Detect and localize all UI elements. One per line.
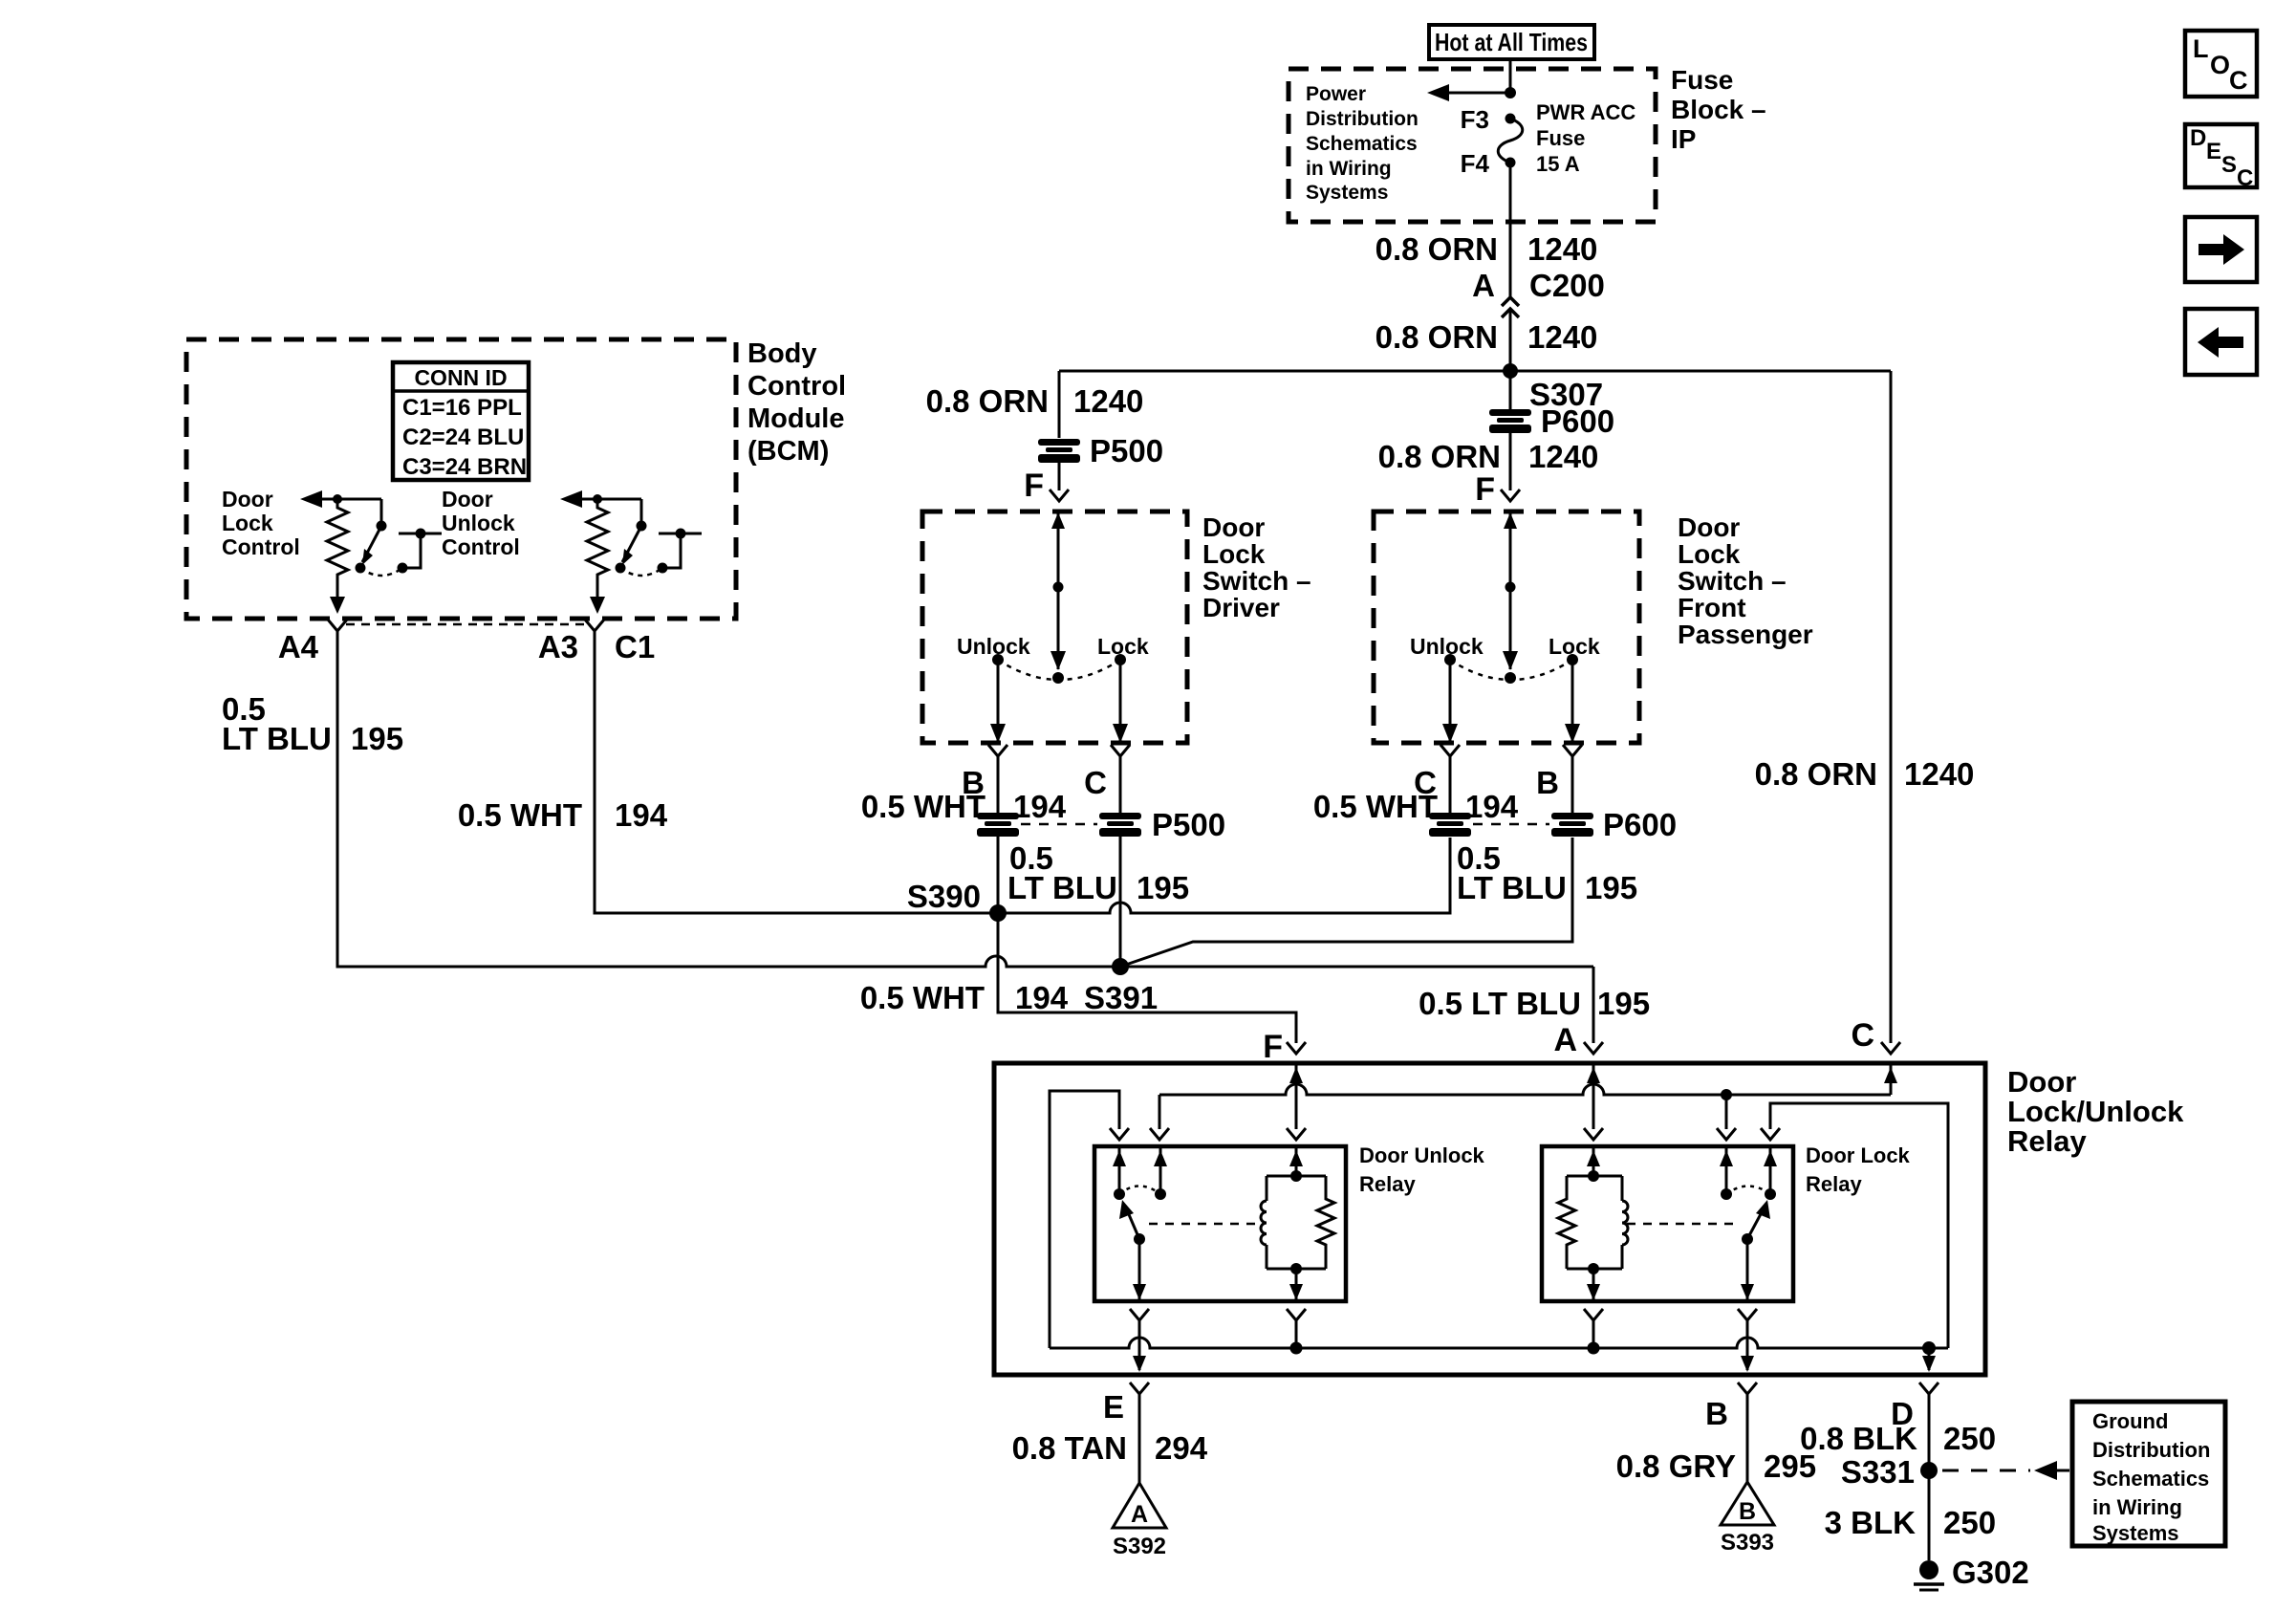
pin F relay box: [1263, 1029, 1306, 1065]
svg-text:Relay: Relay: [2007, 1124, 2087, 1158]
lock relay: coil-blade dashed link: [1627, 1223, 1738, 1226]
splice S390: [907, 879, 1007, 922]
svg-text:Control: Control: [747, 371, 846, 402]
wire: passenger B to P600: [1571, 756, 1574, 814]
wire: lock coil out to ground line: [1584, 1309, 1603, 1355]
pin D relay box bottom: [1891, 1382, 1939, 1431]
wire: driver C below P500 to S391: [1119, 837, 1122, 967]
node F3: [1461, 105, 1516, 134]
svg-text:C2=24 BLU: C2=24 BLU: [402, 425, 524, 450]
svg-text:S: S: [2221, 152, 2237, 178]
svg-text:Unlock: Unlock: [1410, 634, 1484, 659]
svg-text:195: 195: [1137, 870, 1189, 905]
svg-text:Driver: Driver: [1202, 593, 1280, 622]
lock relay: pin2 contact: [1764, 1148, 1777, 1200]
unlock relay: switch blade: [1119, 1200, 1145, 1245]
svg-text:1240: 1240: [1527, 231, 1597, 267]
svg-text:C3=24 BRN: C3=24 BRN: [402, 454, 527, 480]
pin C passenger: [1414, 745, 1460, 800]
svg-text:3 BLK: 3 BLK: [1825, 1505, 1917, 1540]
svg-text:F4: F4: [1461, 149, 1490, 178]
svg-text:0.8 ORN: 0.8 ORN: [1375, 319, 1498, 355]
connector P500 inline on F wire: [1038, 433, 1163, 468]
splice S307: [1503, 363, 1603, 412]
driver: door unlock control output arrow: [560, 490, 641, 508]
wire label: 0.5 LT BLU 195: [222, 691, 403, 756]
unlock relay: blade-coil dashed link: [1149, 1223, 1264, 1226]
connector P600 inline below S307: [1489, 403, 1614, 439]
svg-text:1240: 1240: [1527, 319, 1597, 355]
pin A relay box: [1553, 1022, 1603, 1058]
wire: P500 to switch pin F: [1058, 463, 1061, 490]
svg-text:(BCM): (BCM): [747, 436, 829, 467]
switch box: Door Lock Switch - Front Passenger (dashed): [1374, 512, 1639, 743]
svg-text:Schematics: Schematics: [1306, 133, 1418, 155]
wire: P600 to passenger pin F: [1509, 433, 1512, 490]
svg-text:P500: P500: [1152, 807, 1225, 842]
wire label: 0.8 ORN 1240 right side: [1755, 756, 1975, 792]
wire: internal ground line (hops over E and B): [1050, 1338, 1948, 1348]
svg-text:15 A: 15 A: [1536, 152, 1580, 176]
svg-text:G302: G302: [1952, 1555, 2029, 1590]
switch box: Door Lock Switch - Driver (dashed): [922, 512, 1187, 743]
note box: Ground Distribution Schematics in Wiring Systems: [2072, 1402, 2225, 1546]
svg-text:Block –: Block –: [1671, 95, 1766, 124]
svg-text:C1: C1: [615, 629, 655, 664]
label: Door Unlock Relay: [1359, 1143, 1485, 1196]
pin C driver: [1084, 745, 1130, 800]
svg-text:Body: Body: [747, 338, 817, 369]
wire: passenger C to P600 (0.5 WHT 194): [1313, 756, 1519, 824]
svg-text:Door: Door: [2007, 1065, 2076, 1099]
svg-text:L: L: [2193, 34, 2209, 63]
svg-text:Door Unlock: Door Unlock: [1359, 1143, 1485, 1167]
wire: fuse to S307 (0.8 ORN 1240): [1509, 163, 1512, 297]
icon box LOC: [2185, 31, 2257, 97]
connector dashed line at BCM pins: [346, 623, 586, 626]
wire: C feed drop to unlock relay pin 2: [1150, 1095, 1169, 1140]
wire: main bus from P500 drop to right drop: [1059, 370, 1891, 373]
svg-text:Door Lock: Door Lock: [1806, 1143, 1911, 1167]
lock relay: pin1 contact: [1720, 1148, 1733, 1200]
svg-text:S331: S331: [1841, 1454, 1915, 1490]
svg-text:PWR ACC: PWR ACC: [1536, 100, 1635, 124]
wire: 0.8 ORN 1240 right drop to relay C: [1890, 371, 1893, 1043]
relay module box: Door Lock/Unlock Relay: [994, 1063, 1985, 1375]
svg-text:0.8 TAN: 0.8 TAN: [1012, 1430, 1127, 1466]
icon box DESC: [2185, 124, 2257, 191]
node: D branch on ground line: [1922, 1341, 1936, 1372]
wire: passenger switch F drop from S307: [1509, 371, 1512, 410]
svg-text:P600: P600: [1603, 807, 1677, 842]
svg-text:0.8 ORN: 0.8 ORN: [1375, 231, 1498, 267]
lock relay: coil assembly: [1558, 1148, 1628, 1300]
svg-text:195: 195: [1585, 870, 1637, 905]
driver: unlock control switch: [616, 499, 703, 576]
svg-text:A4: A4: [278, 629, 319, 664]
svg-text:P600: P600: [1541, 403, 1614, 439]
splice S331: [1841, 1454, 1938, 1490]
svg-text:0.8 ORN: 0.8 ORN: [926, 383, 1049, 419]
pin F passenger: [1475, 471, 1520, 508]
svg-text:Unlock: Unlock: [442, 511, 515, 535]
fuse block dashed box: [1289, 69, 1656, 222]
wire: relay A feed down: [1592, 967, 1595, 1043]
wire: F inside relay box: [1287, 1065, 1306, 1140]
passenger switch: wiper dashed arc: [1450, 660, 1572, 680]
wire: ground link line to lock relay pin 2 and D: [1761, 1103, 1948, 1348]
svg-text:C200: C200: [1529, 268, 1605, 303]
wire: ground loop left vertical to unlock pin 1: [1050, 1091, 1129, 1348]
splice S391: [1084, 958, 1158, 1015]
svg-text:Control: Control: [222, 534, 300, 559]
wire: E to S392 (0.8 TAN 294): [1012, 1394, 1208, 1483]
svg-text:S391: S391: [1084, 980, 1158, 1015]
wire label: 0.8 ORN 1240: [1375, 231, 1598, 267]
svg-text:1240: 1240: [1904, 756, 1974, 792]
wire label: 0.5 LT BLU 195 at relay A feed: [1419, 986, 1650, 1021]
pin B driver: [962, 745, 1007, 800]
svg-text:S390: S390: [907, 879, 981, 914]
connector C200 pin A: [1472, 268, 1605, 317]
svg-text:0.8 GRY: 0.8 GRY: [1616, 1448, 1736, 1484]
dashed ref arrow to ground distribution: [1942, 1461, 2069, 1480]
wire label: 0.5 LT BLU 195 driver C: [1007, 840, 1189, 905]
svg-text:Front: Front: [1678, 593, 1746, 622]
icon box arrow right: [2185, 217, 2257, 282]
svg-text:LT BLU: LT BLU: [1457, 870, 1567, 905]
svg-text:CONN ID: CONN ID: [414, 365, 507, 390]
svg-text:0.8 BLK: 0.8 BLK: [1800, 1421, 1917, 1456]
wire label: 0.5 LT BLU 195 passenger B: [1457, 840, 1637, 905]
wire label: 0.8 ORN 1240: [1378, 439, 1599, 474]
svg-text:194: 194: [1013, 789, 1067, 824]
label: Body Control Module (BCM): [747, 338, 846, 467]
svg-text:LT BLU: LT BLU: [222, 721, 332, 756]
passenger switch: wiper arm: [1503, 512, 1518, 684]
svg-text:Passenger: Passenger: [1678, 620, 1813, 649]
svg-text:S393: S393: [1721, 1530, 1774, 1556]
svg-text:Door: Door: [222, 487, 273, 512]
svg-text:S392: S392: [1113, 1534, 1166, 1559]
svg-text:A: A: [1472, 268, 1495, 303]
svg-text:Systems: Systems: [1306, 182, 1388, 204]
svg-text:0.8 ORN: 0.8 ORN: [1378, 439, 1501, 474]
svg-text:LT BLU: LT BLU: [1007, 870, 1117, 905]
pin C relay box: [1851, 1017, 1900, 1054]
svg-text:Door: Door: [1678, 512, 1740, 542]
svg-text:Hot at All Times: Hot at All Times: [1435, 28, 1588, 56]
svg-text:Module: Module: [747, 403, 845, 434]
svg-text:Lock: Lock: [1202, 539, 1266, 569]
node F4: [1461, 149, 1516, 178]
pin F driver: [1024, 468, 1069, 504]
wire: S390 net horizontal (hop over driver C): [595, 631, 1450, 913]
svg-text:A3: A3: [538, 629, 578, 664]
driver: unlock control resistor: [587, 499, 608, 597]
fuse PWR ACC 15A: [1498, 119, 1523, 163]
svg-text:Fuse: Fuse: [1536, 126, 1585, 150]
svg-text:O: O: [2210, 51, 2230, 79]
unlock relay: pin2 contact: [1154, 1148, 1167, 1200]
unlock relay: contact dashed arc: [1119, 1186, 1160, 1195]
svg-text:in Wiring: in Wiring: [2092, 1495, 2182, 1519]
svg-text:E: E: [2206, 139, 2221, 164]
relay box: Door Unlock Relay: [1094, 1146, 1346, 1301]
svg-text:Switch –: Switch –: [1678, 566, 1787, 596]
svg-text:C: C: [1851, 1017, 1874, 1054]
label: Door Unlock Control: [442, 487, 520, 559]
module box: Body Control Module (BCM) dashed: [186, 339, 736, 619]
svg-text:Distribution: Distribution: [1306, 108, 1419, 130]
driver switch: wiper arm: [1051, 512, 1066, 684]
unlock relay: pin1 contact: [1113, 1148, 1126, 1200]
svg-text:250: 250: [1943, 1421, 1996, 1456]
label: Door Lock/Unlock Relay: [2007, 1065, 2184, 1158]
driver switch: wiper dashed arc: [998, 660, 1120, 680]
svg-text:C: C: [1084, 765, 1107, 800]
svg-text:Systems: Systems: [2092, 1521, 2179, 1545]
svg-text:Lock/Unlock: Lock/Unlock: [2007, 1095, 2184, 1128]
svg-text:0.8 ORN: 0.8 ORN: [1755, 756, 1877, 792]
svg-text:Unlock: Unlock: [957, 634, 1030, 659]
svg-text:195: 195: [1597, 986, 1650, 1021]
wire: C feed line (hops over F and A): [1159, 1084, 1891, 1095]
label: Door Lock Switch - Front Passenger: [1678, 512, 1813, 649]
svg-text:F: F: [1475, 471, 1495, 508]
svg-text:A: A: [1131, 1501, 1148, 1528]
wire: C inside relay box to feed line: [1884, 1065, 1897, 1095]
value label: PWR ACC Fuse 15 A: [1536, 100, 1635, 176]
ground G302: [1914, 1555, 2029, 1590]
wire label: 3 BLK 250: [1825, 1505, 1996, 1540]
ground ref triangle A S392: [1113, 1483, 1166, 1559]
svg-text:Lock: Lock: [222, 511, 273, 535]
label box: Hot at All Times: [1429, 25, 1594, 59]
wire label: 0.8 ORN 1240 below C200: [1375, 319, 1598, 355]
wire: feed arrow to power distribution: [1427, 84, 1516, 101]
svg-text:0.5 LT BLU: 0.5 LT BLU: [1419, 986, 1581, 1021]
svg-text:Door: Door: [1202, 512, 1265, 542]
pin E relay box bottom: [1103, 1382, 1149, 1425]
ground ref triangle B S393: [1721, 1482, 1774, 1556]
svg-text:E: E: [1103, 1389, 1124, 1425]
driver: lock control resistor: [327, 499, 348, 597]
wire: D to S331 (0.8 BLK 250): [1800, 1394, 1996, 1560]
label: Door Lock Control: [222, 487, 300, 559]
wire: driver B below P500 to S390: [997, 837, 1000, 913]
svg-text:Ground: Ground: [2092, 1409, 2168, 1433]
svg-text:C: C: [2237, 165, 2253, 191]
svg-text:Relay: Relay: [1359, 1172, 1416, 1196]
wire: F feed from S390 to relay pin F (0.5 WHT 194): [998, 913, 1296, 1043]
svg-text:P500: P500: [1090, 433, 1163, 468]
svg-text:Fuse: Fuse: [1671, 65, 1733, 95]
svg-text:in Wiring: in Wiring: [1306, 158, 1392, 180]
svg-text:D: D: [2190, 125, 2206, 151]
svg-text:Switch –: Switch –: [1202, 566, 1311, 596]
svg-text:250: 250: [1943, 1505, 1996, 1540]
wire: B to S393 (0.8 GRY 295): [1616, 1394, 1816, 1484]
driver: lock control switch: [356, 499, 443, 576]
passenger switch: contact Unlock: [1410, 634, 1484, 743]
wire: A inside relay box: [1584, 1065, 1603, 1140]
svg-text:Relay: Relay: [1806, 1172, 1862, 1196]
wire label: 0.5 WHT 194: [458, 797, 668, 833]
svg-text:1240: 1240: [1528, 439, 1598, 474]
wire: unlock coil out to ground line: [1287, 1309, 1306, 1355]
wire: lock common out (B): [1738, 1239, 1757, 1372]
svg-text:F3: F3: [1461, 105, 1489, 134]
wire: driver C to P500: [1119, 756, 1122, 814]
svg-text:Distribution: Distribution: [2092, 1438, 2210, 1462]
label: Door Lock Relay: [1806, 1143, 1911, 1196]
svg-text:195: 195: [351, 721, 403, 756]
wire: S391 diagonal to passenger B line: [1120, 838, 1572, 967]
pin B passenger: [1536, 745, 1582, 800]
svg-text:B: B: [1536, 765, 1559, 800]
unlock relay: coil assembly: [1261, 1148, 1334, 1300]
svg-text:B: B: [1739, 1498, 1756, 1525]
svg-text:0.5 WHT: 0.5 WHT: [860, 980, 985, 1015]
svg-text:194: 194: [1015, 980, 1069, 1015]
svg-text:194: 194: [1465, 789, 1519, 824]
svg-text:1240: 1240: [1073, 383, 1143, 419]
svg-text:C1=16 PPL: C1=16 PPL: [402, 395, 522, 421]
svg-text:F: F: [1263, 1029, 1283, 1065]
wire: drop to driver switch F: [1058, 371, 1061, 438]
wire: unlock common out (E): [1130, 1239, 1149, 1372]
svg-text:Schematics: Schematics: [2092, 1467, 2209, 1491]
svg-text:0.5 WHT: 0.5 WHT: [1313, 789, 1438, 824]
lock relay: switch blade: [1742, 1200, 1770, 1245]
wire: hot box to fuse block: [1509, 61, 1512, 93]
svg-text:IP: IP: [1671, 124, 1696, 154]
connector P600 pair below passenger switch: [1429, 807, 1677, 842]
svg-text:294: 294: [1155, 1430, 1208, 1466]
svg-text:Lock: Lock: [1678, 539, 1741, 569]
svg-text:C: C: [2229, 66, 2248, 95]
connector P500 pair below driver switch: [977, 807, 1225, 842]
driver: unlock control down arrow to pin A3: [590, 597, 605, 614]
svg-text:0.5 WHT: 0.5 WHT: [458, 797, 582, 833]
driver: lock control down arrow to pin A4: [330, 597, 345, 614]
svg-text:194: 194: [615, 797, 668, 833]
label: Door Lock Switch - Driver: [1202, 512, 1311, 622]
node: C feed to lock relay pin 1: [1717, 1089, 1736, 1140]
lock relay: contact dashed arc: [1726, 1186, 1770, 1195]
svg-text:Power: Power: [1306, 83, 1366, 105]
table: CONN ID: [393, 362, 529, 480]
wire label: 0.5 WHT 194 at F feed: [860, 980, 1069, 1015]
svg-text:Door: Door: [442, 487, 493, 512]
pin B relay box bottom: [1705, 1382, 1757, 1431]
note: Power Distribution Schematics in Wiring Systems: [1306, 83, 1419, 204]
pin A3: [538, 620, 604, 664]
driver switch: contact Lock: [1097, 634, 1149, 743]
svg-text:0.5 WHT: 0.5 WHT: [861, 789, 986, 824]
driver switch: contact Unlock: [957, 634, 1030, 743]
pin A4: [278, 620, 347, 664]
driver: door lock control output arrow: [300, 490, 381, 508]
relay box: Door Lock Relay: [1542, 1146, 1793, 1301]
wire: driver B to P500 (0.5 WHT 194): [861, 756, 1067, 824]
svg-text:B: B: [1705, 1396, 1728, 1431]
svg-text:F: F: [1024, 468, 1044, 504]
wire label: 0.8 ORN 1240: [926, 383, 1144, 419]
wire: S391 net horizontal (hop over F feed): [337, 631, 1593, 967]
svg-text:Control: Control: [442, 534, 520, 559]
svg-text:A: A: [1553, 1022, 1577, 1058]
label: Fuse Block - IP: [1671, 65, 1766, 154]
passenger switch: contact Lock: [1549, 634, 1600, 743]
icon box arrow left: [2185, 309, 2257, 375]
